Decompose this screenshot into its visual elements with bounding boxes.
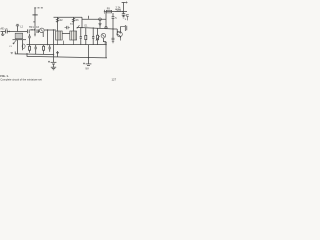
IF transformer IFT1 [56, 31, 63, 40]
capacitor C8 [92, 28, 94, 45]
wire [47, 30, 49, 45]
transistor TR3 [117, 27, 122, 41]
node J1 [9, 31, 10, 32]
resistor R7 [106, 10, 111, 13]
emitter wire [105, 42, 107, 58]
wire [44, 29, 56, 31]
node J4 [47, 44, 48, 45]
svg-text:2.2k: 2.2k [116, 6, 122, 10]
svg-text:Complete circuit of the miniat: Complete circuit of the miniature set [0, 77, 42, 81]
resistor R1 [56, 17, 58, 31]
oscillator coil loop [22, 44, 25, 48]
node J8 [53, 54, 54, 55]
ground [1, 32, 4, 36]
node J7 [88, 57, 89, 58]
resistor R2 [72, 17, 74, 31]
node J6 [112, 28, 113, 29]
resistor R5 [43, 45, 45, 53]
svg-text:FIG. 1.: FIG. 1. [0, 74, 8, 78]
capacitor C6 [49, 45, 51, 52]
hop junction [105, 26, 107, 28]
node AE input terminal [1, 31, 6, 33]
capacitor C12 [65, 26, 70, 29]
capacitor C5 [35, 45, 37, 53]
svg-text:127: 127 [112, 77, 117, 81]
capacitor C10 [112, 13, 115, 29]
diode D1 [99, 18, 102, 28]
capacitor C2 [28, 29, 30, 33]
trimmer slash [77, 25, 80, 28]
node J9 [105, 44, 106, 45]
vertical feed right [105, 12, 107, 29]
antenna A1 [33, 8, 44, 28]
capacitor C7 [80, 28, 82, 45]
wire [12, 31, 27, 33]
supply wire top right [104, 10, 127, 14]
capacitor C11 [112, 29, 115, 43]
capacitor C1 [6, 30, 12, 34]
emitter stub TR1 [42, 32, 44, 37]
potentiometer VR1 [96, 28, 100, 44]
svg-text:AE: AE [0, 27, 4, 31]
coil L1 [15, 33, 22, 39]
wire [15, 52, 43, 57]
resistor R6 [85, 28, 87, 45]
node J2 [47, 29, 48, 30]
battery B2 [83, 45, 91, 66]
ground [51, 67, 56, 70]
capacitor C4 [28, 34, 31, 45]
node J3 [88, 16, 90, 19]
resistor R4 [29, 45, 31, 53]
coil L2 [31, 28, 36, 33]
svg-text:TR1: TR1 [29, 26, 34, 29]
IF transformer IFT2 [70, 31, 77, 40]
AGC line [27, 44, 107, 46]
wire [77, 27, 118, 29]
wire [34, 33, 35, 36]
battery B1 [48, 55, 56, 68]
wire [58, 40, 74, 45]
node J5 [122, 11, 123, 12]
capacitor C9 [122, 12, 125, 18]
node J12 [53, 29, 54, 30]
supply rail [54, 17, 107, 27]
wire [62, 33, 70, 35]
transistor TR2 [101, 33, 106, 41]
resistor R8 [115, 9, 121, 11]
diode D2 [56, 51, 58, 57]
ground rail [27, 56, 107, 58]
trimmer capacitor TC1 [16, 24, 19, 31]
capacitor C3 [37, 29, 40, 33]
variable capacitor VC1 [11, 39, 26, 54]
node J11 [93, 27, 94, 28]
earth rail [15, 53, 53, 56]
transistor TR1 [40, 28, 45, 33]
node J10 [81, 27, 82, 28]
svg-text:9V: 9V [85, 67, 89, 71]
output jack [121, 15, 129, 31]
battery terminal B+ [122, 1, 128, 11]
feed line [53, 30, 55, 55]
